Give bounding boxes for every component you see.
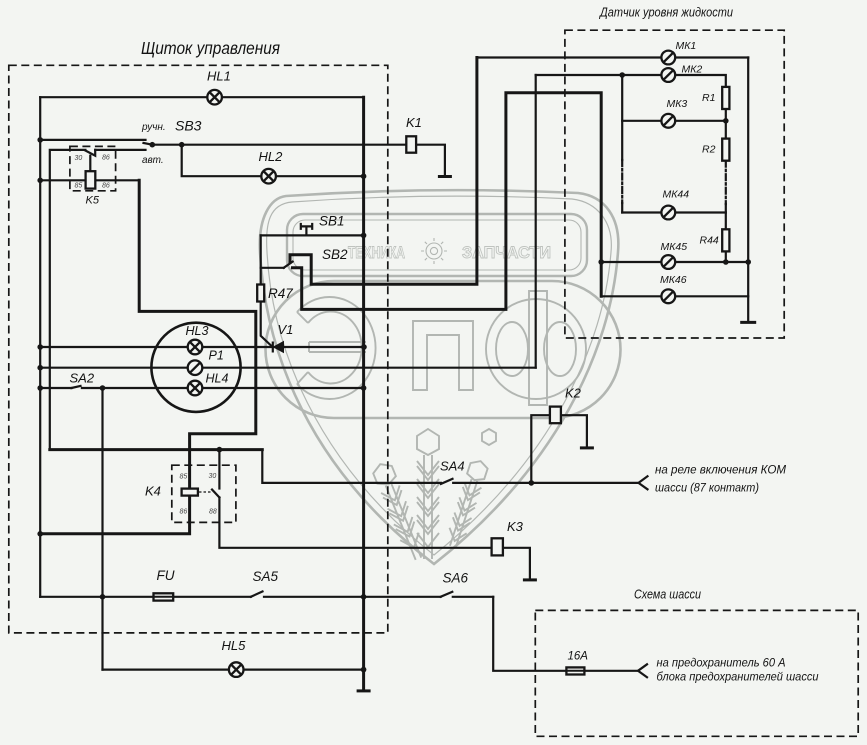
wire: FU / SA5 / SA6 row	[40, 596, 493, 598]
svg-text:85: 85	[75, 183, 83, 190]
svg-text:SA2: SA2	[70, 371, 95, 386]
wire: MK46 row	[601, 295, 748, 297]
svg-text:на реле включения КОМ: на реле включения КОМ	[655, 463, 787, 477]
svg-text:K4: K4	[145, 484, 161, 499]
lamp HL2	[261, 169, 276, 184]
lamp HL1	[207, 90, 222, 105]
sensor contact MK44	[661, 206, 675, 220]
wire: SB2 lever	[284, 262, 293, 268]
relay contact K2	[550, 407, 561, 424]
letter Ф	[486, 291, 586, 405]
wire: SB3 auto contact stub	[95, 149, 145, 151]
wire: SA4 lever	[441, 479, 453, 484]
wire: top feed line through HL1	[40, 96, 363, 98]
relay contact K3	[492, 538, 503, 555]
lamp HL4	[188, 381, 203, 396]
wire: SB2 upper throw to MK1 line	[290, 58, 477, 285]
wire: K5 coil row	[40, 179, 139, 181]
pushbutton SB1 actuator	[301, 224, 312, 234]
wire: SB1 row	[261, 234, 364, 236]
indicator dial circle	[151, 323, 240, 412]
wire: R2 dashdot down	[725, 161, 727, 204]
wire: HL4 / SA2 row	[40, 387, 363, 389]
small hex accent	[482, 429, 496, 445]
watermark shield logo	[260, 190, 621, 564]
wire: K3 to ground	[503, 548, 530, 579]
svg-text:Датчик уровня жидкости: Датчик уровня жидкости	[598, 5, 733, 20]
sensor contact MK2	[661, 68, 675, 82]
wire: SA6 lever	[441, 592, 453, 597]
resistor R1	[722, 87, 729, 109]
svg-text:SA4: SA4	[440, 459, 465, 474]
svg-text:шасси (87 контакт): шасси (87 контакт)	[655, 481, 759, 495]
lamp HL3	[188, 340, 203, 355]
wire: R1-R2 link	[725, 109, 727, 139]
wire: MK3 row	[622, 120, 726, 122]
wire: R47 bottom to diode V1	[261, 302, 273, 348]
meter P1	[188, 360, 203, 375]
svg-text:МК3: МК3	[667, 98, 688, 110]
sensor contact MK46	[661, 289, 675, 303]
svg-text:K5: K5	[86, 195, 100, 207]
relay K4 coil	[182, 489, 198, 496]
wire: sensor right vertical to ground	[747, 58, 749, 322]
lamp HL5	[229, 662, 244, 677]
svg-text:SB3: SB3	[175, 118, 202, 134]
fuse 16A	[566, 667, 584, 674]
wire: SA5 lever	[251, 592, 263, 597]
resistor R2	[722, 139, 729, 161]
wire: feed to SA4 row	[262, 450, 441, 483]
svg-text:HL1: HL1	[207, 69, 231, 84]
sensor dashed box	[565, 30, 784, 338]
control panel dashed box	[9, 65, 388, 633]
letter П	[413, 321, 473, 390]
wire: SB3 common to K1	[144, 143, 407, 145]
relay K5 dashed box	[70, 146, 116, 190]
wire: SB2 common stub	[261, 267, 284, 269]
svg-text:R44: R44	[700, 235, 719, 247]
ground after K2	[580, 446, 594, 449]
svg-text:авт.: авт.	[142, 155, 164, 166]
wire: SA2 lever	[72, 386, 81, 388]
svg-text:K3: K3	[507, 519, 524, 534]
wire: SA6 down to 16A fuse line	[493, 597, 638, 671]
wire: K2 branch	[531, 415, 550, 483]
ground sensor bottom	[740, 321, 756, 324]
svg-text:88: 88	[209, 509, 217, 516]
ground HL5 line	[357, 689, 371, 692]
sensor contact MK45	[661, 255, 675, 269]
wire: K4 pin30 vertical	[218, 450, 220, 489]
svg-text:ТЕХНИКА: ТЕХНИКА	[348, 243, 405, 262]
resistor R44	[722, 229, 729, 251]
svg-text:30: 30	[209, 473, 217, 480]
svg-text:HL2: HL2	[259, 149, 284, 164]
sensor contact MK1	[661, 51, 675, 65]
ground after K3	[523, 578, 537, 581]
svg-text:HL3: HL3	[186, 324, 209, 338]
sensor contact MK3	[661, 114, 675, 128]
svg-text:SB2: SB2	[322, 247, 348, 262]
svg-text:R2: R2	[702, 144, 716, 156]
wire: SA4 to arrow KOM relay	[453, 482, 638, 484]
wire: SB3 manual contact stub	[40, 139, 145, 141]
wire: K4 pin30 feed row	[50, 448, 262, 451]
resistor R47	[257, 285, 264, 302]
svg-text:МК45: МК45	[661, 241, 688, 253]
svg-text:SA6: SA6	[443, 571, 469, 586]
wire: MK45 row	[601, 261, 748, 263]
wire: K1 to ground	[416, 145, 445, 176]
svg-text:85: 85	[180, 474, 188, 481]
wire: big central vertical bus	[362, 97, 365, 690]
svg-text:ручн.: ручн.	[141, 122, 166, 133]
relay contact K1	[406, 136, 416, 152]
wire: K5 link lever to coil	[89, 156, 91, 172]
capsule band	[266, 281, 621, 418]
svg-text:МК1: МК1	[676, 40, 697, 52]
svg-text:FU: FU	[157, 568, 175, 583]
wire: MK1 row	[477, 56, 748, 58]
wire: K4 lever	[212, 490, 219, 498]
svg-text:86: 86	[180, 509, 188, 516]
svg-text:R1: R1	[702, 92, 715, 104]
relay K4 dashed box	[172, 465, 236, 522]
wire: K5 contact lever	[85, 150, 95, 156]
svg-text:P1: P1	[209, 349, 224, 363]
wire: SB1 to SB2 common vertical	[260, 235, 262, 284]
svg-text:МК2: МК2	[682, 64, 703, 76]
wheat ears	[371, 429, 496, 562]
svg-text:K1: K1	[406, 115, 422, 130]
wire: SA2 branch down to HL5	[101, 388, 103, 670]
wire: SB2 lower throw to MK45/46 feed	[293, 93, 602, 310]
wire: K5 row from auto contact down-left	[50, 150, 86, 450]
svg-text:блока предохранителей шасси: блока предохранителей шасси	[657, 670, 819, 684]
wire: main left vertical bus	[39, 97, 41, 597]
svg-text:МК44: МК44	[663, 189, 690, 201]
svg-text:86: 86	[102, 155, 110, 162]
svg-text:SB1: SB1	[319, 214, 345, 229]
svg-text:МК46: МК46	[660, 274, 687, 286]
wire: HL2 branch	[182, 145, 364, 177]
fuse FU	[154, 593, 174, 600]
svg-text:V1: V1	[278, 322, 294, 337]
svg-text:30: 30	[75, 155, 83, 162]
svg-text:HL5: HL5	[222, 638, 247, 653]
wire: K2 to ground	[561, 415, 587, 446]
relay K5 coil	[86, 171, 96, 188]
svg-text:Щиток управления: Щиток управления	[141, 38, 280, 58]
svg-text:86: 86	[102, 183, 110, 190]
wire: HL3 / V1 row	[40, 346, 364, 348]
wire: HL5 row	[103, 668, 364, 670]
svg-text:K2: K2	[565, 386, 582, 401]
wire: K4 pin88 to K3 row	[219, 498, 491, 548]
arrow to chassis fuse block	[638, 664, 647, 677]
K4 coil-lever mechanical link	[199, 491, 211, 493]
wire: MK2 row	[536, 75, 726, 87]
diode V1	[273, 342, 284, 353]
svg-text:Схема шасси: Схема шасси	[634, 587, 702, 602]
wire: P1 row to MK2	[40, 367, 536, 369]
wire: sensor inner left vertical	[621, 75, 623, 160]
arrow to KOM relay	[639, 476, 648, 489]
ground after K1	[438, 175, 452, 178]
svg-text:на предохранитель 60 А: на предохранитель 60 А	[657, 656, 786, 670]
chassis dashed box	[535, 610, 858, 736]
svg-text:SA5: SA5	[253, 569, 279, 584]
wire: R44 to MK45 row	[725, 251, 727, 262]
wire: MK44 row	[622, 211, 726, 213]
letter Э	[297, 297, 376, 399]
svg-text:R47: R47	[268, 286, 293, 301]
svg-text:16А: 16А	[568, 651, 589, 663]
svg-text:HL4: HL4	[206, 372, 229, 386]
wire: K5 to K4 feed	[40, 180, 256, 534]
